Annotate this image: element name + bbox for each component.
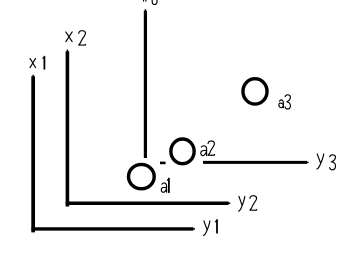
- label a1: [161, 179, 169, 193]
- wire y2 horizontal line: [66, 201, 231, 205]
- label a3: [279, 95, 291, 109]
- node a2 circle: [171, 139, 194, 164]
- label a2: [201, 141, 215, 156]
- wire x1 vertical line: [31, 75, 35, 233]
- node a1 circle: [129, 164, 155, 188]
- label y3: [317, 154, 336, 170]
- wire y3 horizontal line: [203, 161, 309, 164]
- wire y1 horizontal line: [31, 227, 195, 230]
- label y2: [239, 196, 257, 212]
- label x3 (cut off at top edge): [143, 0, 157, 5]
- wire x3 vertical line: [144, 9, 147, 158]
- label x2: [66, 31, 86, 45]
- wire x2 vertical line: [66, 50, 70, 207]
- node a3 circle: [243, 79, 267, 104]
- wire y3 dash segment: [160, 162, 166, 165]
- label y1: [204, 220, 217, 235]
- label x1: [30, 57, 44, 69]
